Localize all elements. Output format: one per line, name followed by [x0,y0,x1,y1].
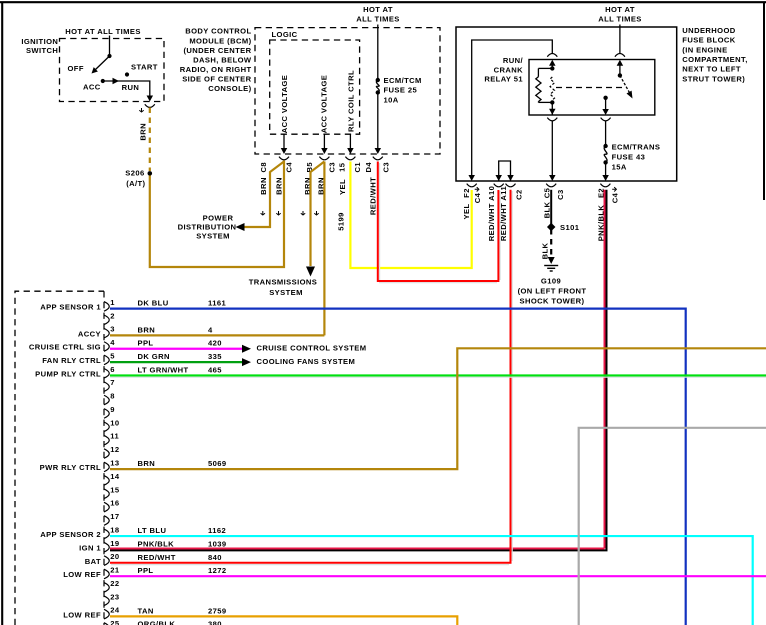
svg-text:2: 2 [110,311,115,320]
svg-text:ACCY: ACCY [78,329,101,338]
svg-text:S101: S101 [560,223,580,232]
svg-text:IGNITION: IGNITION [21,37,58,46]
svg-text:11: 11 [110,432,119,441]
svg-text:F2: F2 [462,188,471,198]
svg-text:BRN: BRN [138,325,156,334]
wire ACC/RUN to ignition output [103,81,150,97]
svg-text:ACC VOLTAGE: ACC VOLTAGE [280,75,289,134]
svg-text:DISTRIBUTION: DISTRIBUTION [178,223,237,232]
run contact arrow [113,78,120,84]
svg-text:ALL TIMES: ALL TIMES [356,15,400,24]
arrow YEL F2 exit [468,175,475,181]
wire BRN 4 pin 3 [110,334,324,336]
svg-text:465: 465 [208,365,222,374]
svg-text:STRUT TOWER): STRUT TOWER) [682,74,745,83]
svg-text:FUSE BLOCK: FUSE BLOCK [682,36,735,45]
connector block box [15,291,104,625]
connector C3 at BCM [319,157,329,160]
contact START dot [125,72,129,76]
svg-text:C8: C8 [259,162,268,173]
svg-text:POWER: POWER [203,213,234,222]
svg-text:COOLING FANS SYSTEM: COOLING FANS SYSTEM [257,357,356,366]
ground G109 [548,257,555,264]
svg-text:SHOCK TOWER): SHOCK TOWER) [520,297,585,306]
svg-text:15A: 15A [612,162,627,171]
svg-text:18: 18 [110,525,119,534]
svg-text:BODY CONTROL: BODY CONTROL [185,27,251,36]
relay coil [538,67,552,69]
pin 18 terminal [104,529,109,539]
svg-text:ACC VOLTAGE: ACC VOLTAGE [320,75,329,134]
BCM box [255,28,440,154]
relay actuator dashed link [556,87,622,89]
svg-text:CRUISE CONTROL SYSTEM: CRUISE CONTROL SYSTEM [257,344,367,353]
svg-text:START: START [131,63,158,72]
arrow to POWER DISTRIBUTION SYSTEM [236,223,245,231]
svg-text:ALL TIMES: ALL TIMES [598,15,642,24]
svg-text:BRN: BRN [259,177,268,195]
svg-text:23: 23 [110,592,119,601]
splice S206 [148,171,153,176]
wire RED/WHT BCM D4 to fuse block A10 [378,162,499,282]
svg-text:25: 25 [110,619,120,625]
connector A11/C2 [506,184,516,187]
pin 25 terminal [104,623,109,625]
wire BRN C8 branch to power distribution [244,162,284,228]
svg-text:C2: C2 [514,189,523,200]
svg-text:ACC: ACC [83,82,101,91]
svg-text:15: 15 [110,485,120,494]
svg-text:SYSTEM: SYSTEM [269,288,303,297]
svg-text:PPL: PPL [138,339,154,348]
svg-text:BRN: BRN [138,459,156,468]
page border left [1,2,3,625]
arrow under coil connector [549,109,556,115]
relay switch output node [603,96,607,100]
wire BRN from S206 to BCM C4 [150,161,284,268]
wire hot feed to fuse 25 [377,25,379,81]
relay coil to bottom edge [551,102,553,115]
arrow to COOLING FANS SYSTEM [242,358,251,366]
svg-text:C4: C4 [285,162,294,173]
svg-text:PWR RLY CTRL: PWR RLY CTRL [40,463,101,472]
wire TAN 2759 pin 24 [110,616,457,625]
connector E2/C4 [600,184,610,187]
wire fuse 43 to E2 exit [605,162,607,175]
svg-text:15: 15 [338,162,347,172]
svg-text:RED/WHT A10: RED/WHT A10 [487,186,496,242]
wire hot feed into relay switch [619,25,621,54]
svg-text:19: 19 [110,539,119,548]
wire fuse block F2 up and over to relay coil [472,40,553,175]
relay switch input [619,62,621,75]
svg-text:DASH, BELOW: DASH, BELOW [193,55,252,64]
svg-text:SYSTEM: SYSTEM [196,232,230,241]
contact ACC dot [101,79,105,83]
svg-text:BRN: BRN [275,177,284,195]
svg-text:1272: 1272 [208,566,227,575]
pin 23 terminal [104,596,109,606]
connector C4 at BCM [279,157,289,160]
svg-text:PUMP RLY CTRL: PUMP RLY CTRL [35,369,101,378]
svg-text:17: 17 [110,512,119,521]
wire relay switch to fuse 43 [605,121,607,146]
wire LT GRN/WHT 465 pin 6 [110,374,766,376]
wire BRN B5 branch to transmissions [311,162,325,267]
svg-text:SIDE OF CENTER: SIDE OF CENTER [182,74,251,83]
svg-text:10A: 10A [384,95,399,104]
svg-text:G109: G109 [541,277,561,286]
svg-text:1: 1 [110,298,115,307]
svg-text:20: 20 [110,552,119,561]
svg-text:5: 5 [110,351,115,360]
pin 3 terminal [104,328,109,338]
connector C1 at BCM [345,157,355,160]
svg-text:3: 3 [110,325,115,334]
svg-text:C3: C3 [382,162,391,173]
pin 8 terminal [104,395,109,405]
pin 7 terminal [104,382,109,392]
svg-text:CRANK: CRANK [494,65,524,74]
svg-text:TRANSMISSIONS: TRANSMISSIONS [249,278,318,287]
pin 9 terminal [104,409,109,419]
svg-text:ORG/BLK: ORG/BLK [138,620,176,625]
svg-text:5199: 5199 [337,212,346,231]
wire BLK dashed to ground [550,229,552,257]
svg-text:IGN 1: IGN 1 [79,543,101,552]
svg-text:FUSE 43: FUSE 43 [612,153,646,162]
arrow to CRUISE CONTROL SYSTEM [242,345,251,353]
pin 20 terminal [104,556,109,566]
wire logic to BCM edge pin 15 [349,134,351,148]
svg-text:APP SENSOR 2: APP SENSOR 2 [40,530,101,539]
svg-text:S206: S206 [125,168,144,177]
svg-text:PNK/BLK: PNK/BLK [138,539,175,548]
wire logic to BCM edge pin B5 [323,134,325,148]
wire GRY unconnected [579,428,766,625]
svg-text:LOGIC: LOGIC [272,30,298,39]
svg-text:LOW REF: LOW REF [63,570,101,579]
pin 5 terminal [104,355,109,365]
svg-text:CRUISE CTRL SIG: CRUISE CTRL SIG [29,343,101,352]
pin 16 terminal [104,502,109,512]
connector into relay (switch side) [615,54,625,57]
svg-text:C3: C3 [327,162,336,173]
BCM logic box [270,40,360,134]
svg-text:NEXT TO LEFT: NEXT TO LEFT [682,65,741,74]
svg-text:(IN ENGINE: (IN ENGINE [682,45,727,54]
svg-text:12: 12 [110,445,119,454]
wire PPL 420 pin 4 [110,348,242,350]
svg-text:MODULE (BCM): MODULE (BCM) [189,36,251,45]
svg-text:4: 4 [208,325,213,334]
svg-text:FAN RLY CTRL: FAN RLY CTRL [42,356,101,365]
pin 12 terminal [104,449,109,459]
svg-text:1161: 1161 [208,299,226,308]
wire fuse 25 to BCM edge [377,93,379,149]
svg-text:RED/WHT: RED/WHT [138,553,176,562]
wire DK GRN 335 pin 5 [110,361,242,363]
svg-text:COMPARTMENT,: COMPARTMENT, [682,55,747,64]
svg-text:C3: C3 [556,189,565,200]
svg-text:YEL: YEL [462,204,471,220]
connector into relay (coil side) [547,54,557,57]
svg-text:9: 9 [110,405,115,414]
svg-text:C5: C5 [543,187,552,198]
fuse ECM/TRANS FUSE 43 15A [603,144,607,148]
pin 13 terminal [104,462,109,472]
direction arrow below ignition connector [139,108,143,112]
relay coil top node [551,62,553,68]
svg-text:21: 21 [110,566,120,575]
wire logic to BCM edge pin C8 [283,134,285,148]
wire YEL BCM C1 to fuse block F2 [350,162,471,269]
svg-text:(UNDER CENTER: (UNDER CENTER [183,46,251,55]
svg-text:DK BLU: DK BLU [138,299,169,308]
svg-text:RED/WHT A11: RED/WHT A11 [499,186,508,242]
underhood fuse block box [456,27,677,181]
svg-text:PPL: PPL [138,566,154,575]
svg-text:ECM/TRANS: ECM/TRANS [612,142,661,151]
svg-text:RUN: RUN [122,83,140,92]
wire LT BLU 1162 pin 18 [110,536,753,625]
svg-text:4: 4 [110,338,115,347]
svg-text:LOW REF: LOW REF [63,610,101,619]
svg-text:TAN: TAN [138,606,154,615]
wire PPL 1272 pin 21 [110,575,766,577]
svg-text:BRN: BRN [138,123,147,141]
ignition output connector [145,104,155,107]
wire RED/WHT A11 to pin 20 BAT [110,190,511,563]
ignition switch box [60,39,165,102]
pin 22 terminal [104,583,109,593]
svg-text:6: 6 [110,365,115,374]
page border right (partial) [763,2,765,200]
pin 17 terminal [104,516,109,526]
wire BRN C3 to pin 3 ACCY [323,162,325,336]
svg-text:(A/T): (A/T) [126,179,145,188]
splice S101 [547,223,555,231]
svg-text:380: 380 [208,620,222,625]
wire relay coil to BLK exit [551,121,553,175]
svg-text:RELAY 51: RELAY 51 [484,75,523,84]
arrow to TRANSMISSIONS SYSTEM [306,267,315,277]
pin 14 terminal [104,476,109,486]
connector C3b at BCM [373,157,383,160]
fuse ECM/TCM FUSE 25 10A [376,78,380,82]
relay bottom connector (switch) [601,118,611,121]
svg-text:BLK: BLK [541,242,550,259]
svg-text:D4: D4 [364,162,373,173]
svg-text:BAT: BAT [85,557,101,566]
connector F2/C4 [467,184,477,187]
pin 21 terminal [104,569,109,579]
direction arrow at F2 exit [475,187,479,191]
switch blade [96,56,110,70]
pin 4 terminal [104,342,109,352]
svg-text:LT GRN/WHT: LT GRN/WHT [138,365,189,374]
pin 10 terminal [104,422,109,432]
svg-text:RED/WHT: RED/WHT [368,177,377,215]
svg-text:OFF: OFF [68,64,84,73]
jumper A10-A11 inside fuse block [499,161,511,181]
svg-text:2759: 2759 [208,606,227,615]
svg-text:DK GRN: DK GRN [138,352,170,361]
wire BRN 5069 pin 13 [110,348,766,469]
svg-text:C1: C1 [353,162,362,173]
svg-text:RADIO, ON RIGHT: RADIO, ON RIGHT [180,65,252,74]
svg-text:C4: C4 [473,192,482,203]
svg-text:RLY COIL CTRL: RLY COIL CTRL [346,70,355,132]
relay box RUN/CRANK RELAY 51 [529,60,655,116]
svg-text:YEL: YEL [338,179,347,195]
svg-text:16: 16 [110,499,119,508]
svg-text:LT BLU: LT BLU [138,526,167,535]
svg-text:CONSOLE): CONSOLE) [208,84,251,93]
ignition output arrow into box edge [147,96,154,102]
relay bottom connector (coil) [547,118,557,121]
connector block right edge [103,291,105,625]
wire DK BLU 1161 pin 1 [110,309,686,625]
pin 15 terminal [104,489,109,499]
svg-text:1039: 1039 [208,539,227,548]
svg-text:7: 7 [110,378,115,387]
svg-text:SWITCH: SWITCH [26,46,58,55]
wire from hot feed to switch pivot [109,36,111,57]
svg-text:RUN/: RUN/ [503,56,524,65]
svg-text:APP SENSOR 1: APP SENSOR 1 [40,303,101,312]
wire BRN dashed to S206 [149,108,151,172]
pin 24 terminal [104,609,109,619]
switch pivot dot [107,54,111,58]
svg-text:FUSE 25: FUSE 25 [384,86,418,95]
svg-text:24: 24 [110,606,120,615]
direction arrows below BCM [261,211,265,215]
svg-text:5069: 5069 [208,459,227,468]
svg-text:22: 22 [110,579,119,588]
svg-text:840: 840 [208,553,222,562]
svg-text:14: 14 [110,472,120,481]
svg-text:C4: C4 [611,192,620,203]
svg-text:1162: 1162 [208,526,226,535]
wire PNK/BLK E2 to pin 19 IGN 1 [604,190,606,549]
connector A10 [494,184,504,187]
pin 11 terminal [104,435,109,445]
pin 6 terminal [104,369,109,379]
pin 1 terminal [104,302,109,312]
svg-text:13: 13 [110,458,119,467]
direction arrow at E2 exit [612,187,616,191]
svg-text:10: 10 [110,418,119,427]
svg-text:ECM/TCM: ECM/TCM [384,76,422,85]
pin 2 terminal [104,315,109,325]
svg-text:UNDERHOOD: UNDERHOOD [682,26,735,35]
page border top [0,1,766,3]
relay switch blade [620,75,631,94]
svg-text:BLK: BLK [543,201,552,218]
svg-text:8: 8 [110,392,115,401]
svg-text:420: 420 [208,339,222,348]
svg-text:(ON LEFT FRONT: (ON LEFT FRONT [518,287,587,296]
connector C5/C3 [546,184,556,187]
svg-text:HOT AT ALL TIMES: HOT AT ALL TIMES [65,27,141,36]
svg-text:335: 335 [208,352,222,361]
svg-text:HOT AT: HOT AT [605,5,635,14]
wire BLK to S101 [550,190,552,225]
svg-text:HOT AT: HOT AT [363,5,393,14]
pin 19 terminal [104,542,109,552]
